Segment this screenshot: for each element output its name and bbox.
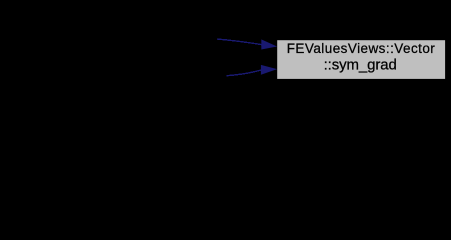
node FEValuesViews::Vector::sym_grad [277,40,445,79]
wire edge 1 [217,39,277,50]
wire edge 2 [227,65,277,76]
svg-text:FEValuesViews::Vector: FEValuesViews::Vector [287,41,436,56]
svg-text:::sym_grad: ::sym_grad [324,57,397,74]
